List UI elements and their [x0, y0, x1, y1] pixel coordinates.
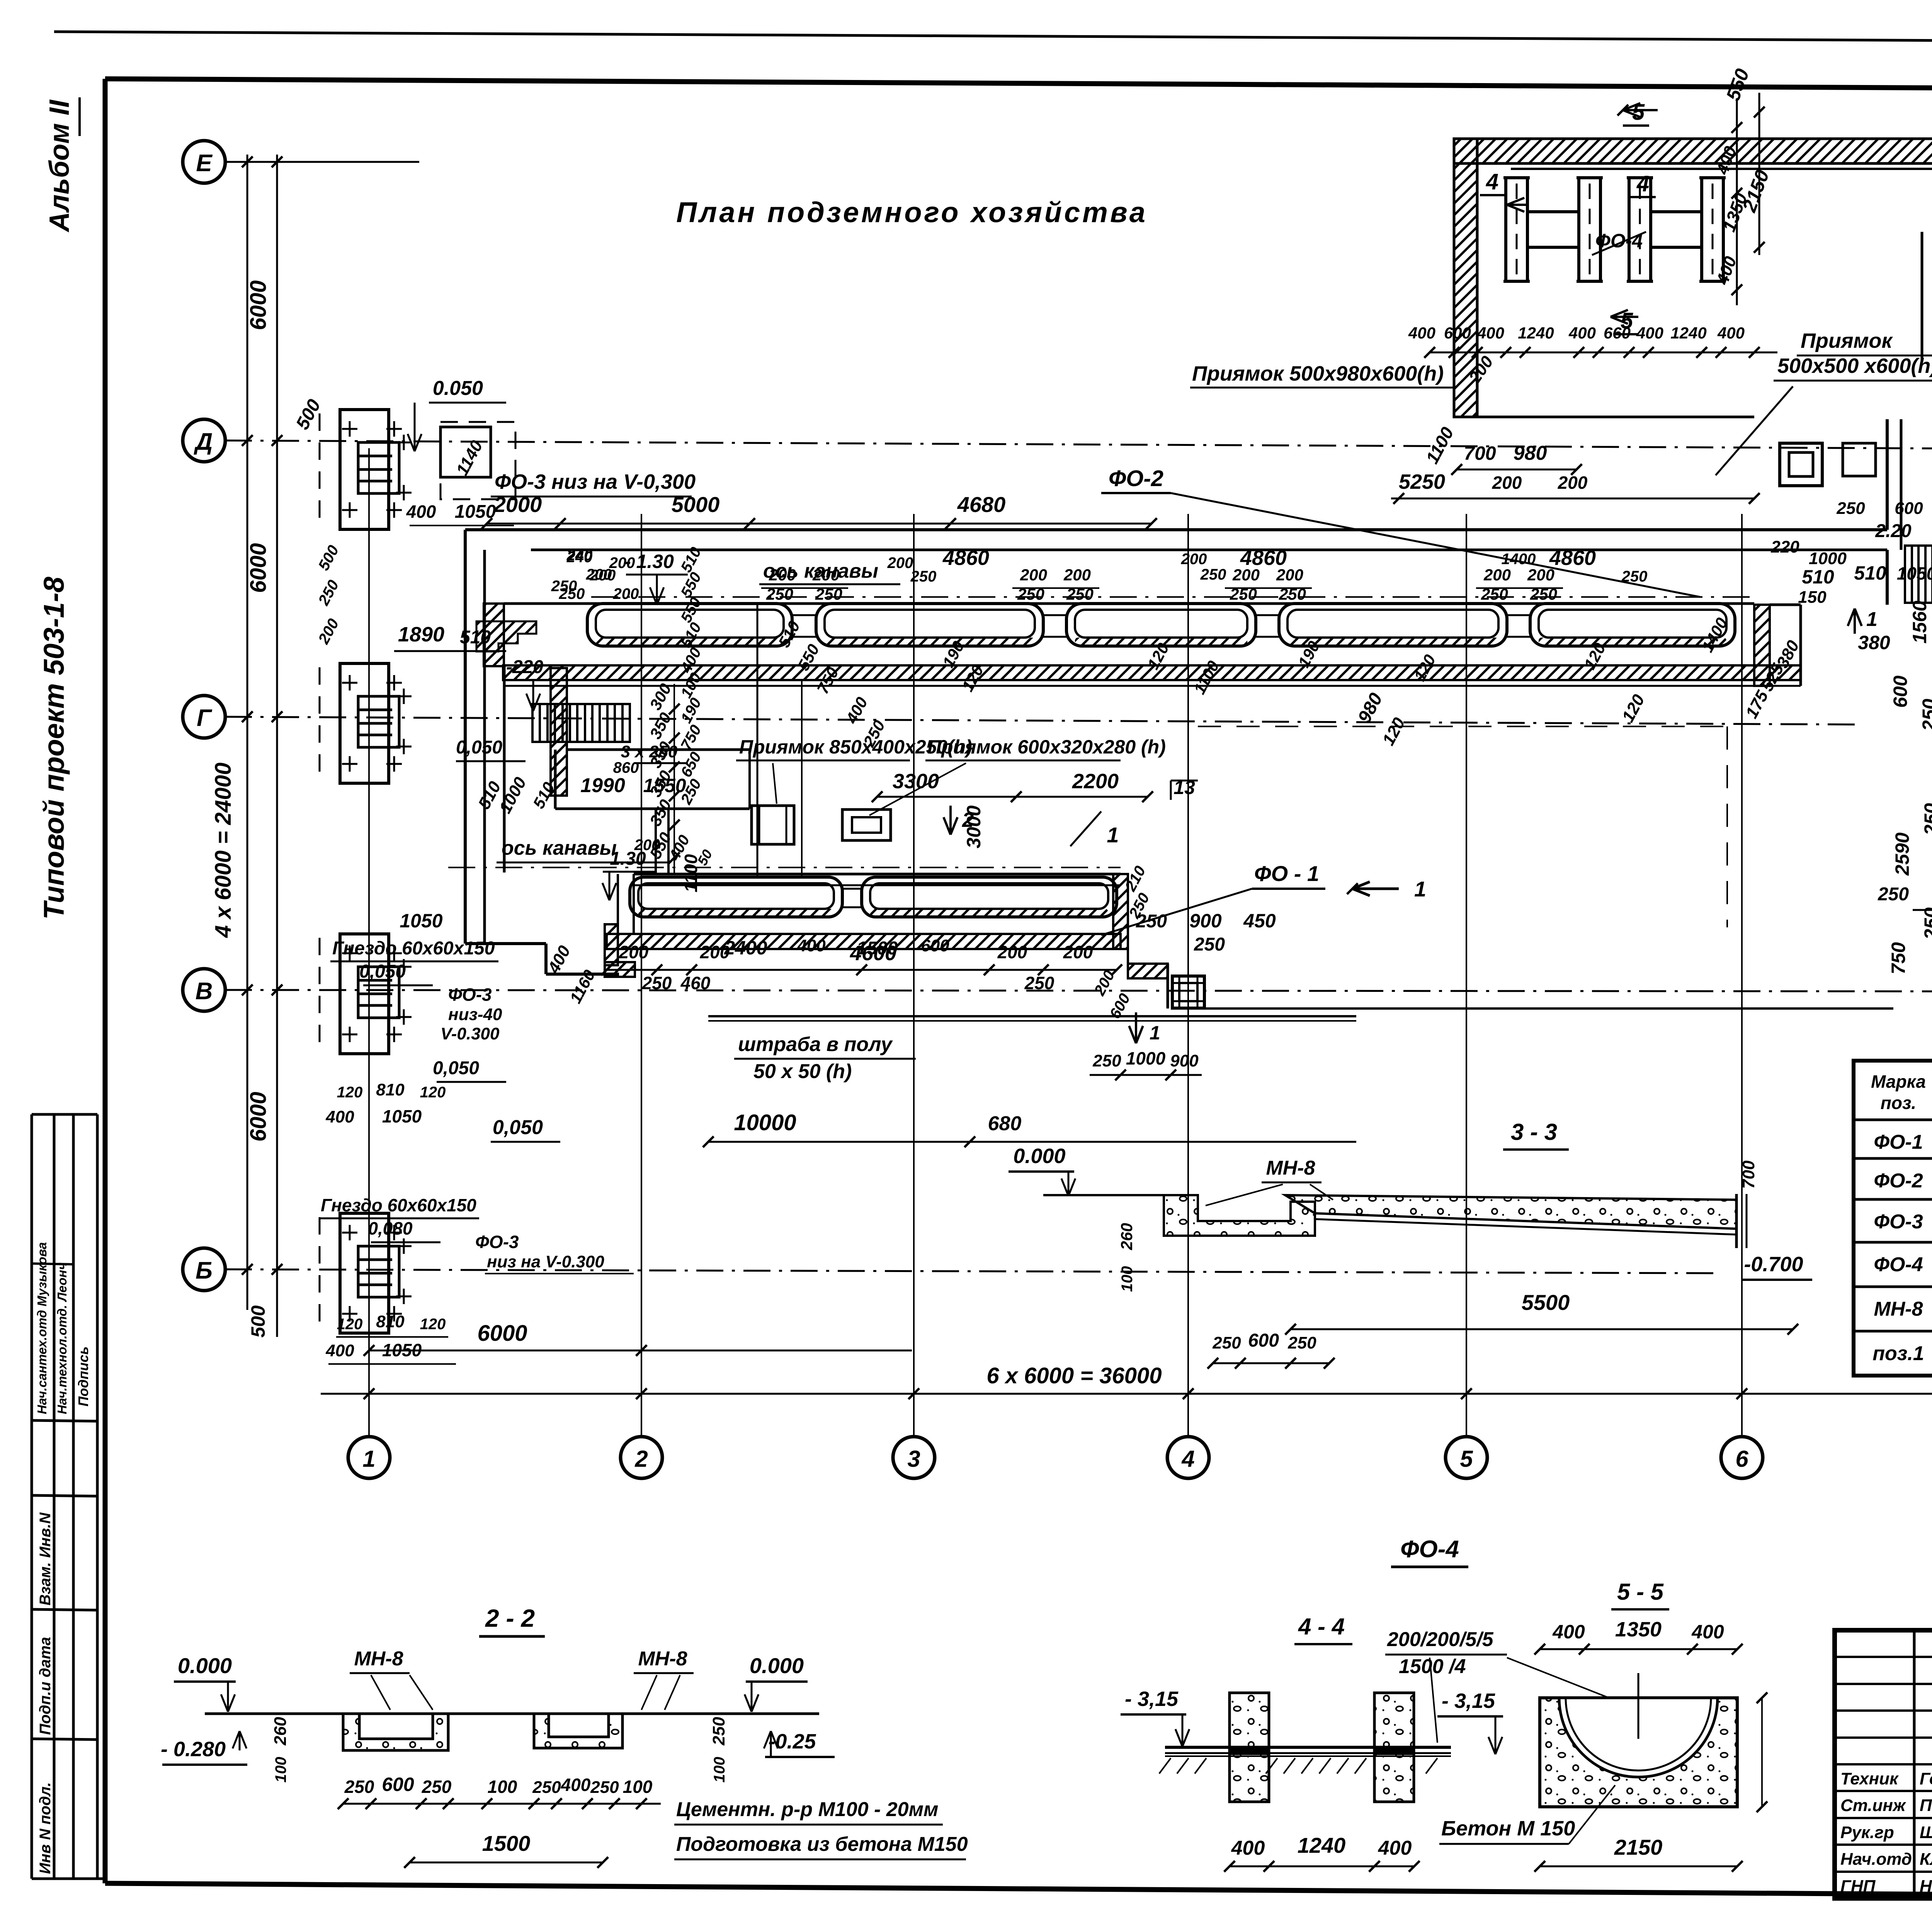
axis circle Е	[183, 141, 225, 183]
sheet frame left edge	[103, 79, 108, 1883]
left dim chain line 2	[276, 155, 278, 1337]
svg-text:1240: 1240	[1670, 324, 1706, 342]
svg-text:В: В	[196, 978, 213, 1005]
bottom right boundary step	[1167, 964, 1169, 1009]
svg-text:250: 250	[709, 1717, 728, 1746]
svg-text:200: 200	[1483, 566, 1511, 584]
svg-text:Типовой проект 503-1-8: Типовой проект 503-1-8	[38, 577, 70, 920]
svg-text:250: 250	[1287, 1333, 1316, 1352]
ФО-1 leader	[1101, 889, 1252, 935]
svg-text:0,050: 0,050	[359, 961, 406, 982]
bottom trench left end boundary	[617, 874, 619, 924]
plan interior vertical line B	[801, 680, 803, 877]
svg-text:6000: 6000	[246, 1092, 271, 1141]
svg-text:1050: 1050	[382, 1106, 422, 1126]
svg-text:600: 600	[1889, 675, 1911, 708]
spec table row line	[1854, 1241, 1932, 1244]
building top wall hatched	[1454, 139, 1932, 163]
svg-text:250: 250	[1194, 934, 1225, 955]
section mark 2 bottom-left	[1135, 1012, 1137, 1043]
svg-text:1050: 1050	[382, 1340, 422, 1360]
building inner left line	[1476, 163, 1478, 417]
svg-text:700: 700	[1739, 1160, 1758, 1189]
pit cluster axis В left	[340, 934, 389, 1054]
axis Е line	[225, 161, 419, 163]
svg-text:ФО-4: ФО-4	[1874, 1253, 1923, 1276]
shtraba line	[708, 1015, 1356, 1017]
title block left rows	[1835, 1656, 1932, 1658]
svg-text:1: 1	[1150, 1022, 1160, 1044]
svg-text:200: 200	[1063, 566, 1091, 584]
bottom trench slot 1 inner	[638, 883, 834, 909]
spec table row line	[1854, 1198, 1932, 1201]
svg-text:Полякова: Полякова	[1920, 1796, 1932, 1815]
svg-text:2.20: 2.20	[1875, 521, 1912, 541]
svg-text:ФО-2: ФО-2	[1874, 1170, 1923, 1192]
priamok pit on axis Д 2	[1843, 443, 1876, 476]
building dim row	[1430, 352, 1777, 354]
building pair B connector	[1651, 210, 1702, 213]
svg-text:поз.1: поз.1	[1872, 1342, 1924, 1365]
pit cluster axis Д wall side	[440, 427, 491, 477]
svg-text:500х500 х600(h): 500х500 х600(h)	[1777, 354, 1932, 378]
building right dim vline	[1736, 100, 1738, 305]
svg-text:200: 200	[997, 942, 1027, 962]
axis circle Г	[183, 696, 225, 738]
svg-text:ФО-2: ФО-2	[1109, 466, 1163, 491]
axis 6 vertical line	[1741, 514, 1743, 1437]
4-4 post left	[1230, 1693, 1269, 1802]
svg-text:Цементн. р-р М100 - 20мм: Цементн. р-р М100 - 20мм	[676, 1798, 939, 1821]
sheet outer top line	[54, 32, 1932, 44]
svg-text:Климов: Климов	[1920, 1850, 1932, 1869]
title block outer frame	[1835, 1630, 1932, 1898]
right room bottom boundary	[1171, 1007, 1893, 1010]
svg-text:ось канавы: ось канавы	[502, 837, 617, 859]
plan wall lines x1697 x1730	[655, 809, 657, 874]
svg-text:0.000: 0.000	[1013, 1145, 1065, 1168]
svg-text:6000: 6000	[477, 1321, 527, 1346]
svg-text:860: 860	[613, 759, 639, 776]
svg-text:- 3,15: - 3,15	[1442, 1689, 1495, 1713]
svg-text:260: 260	[271, 1717, 290, 1746]
svg-text:3: 3	[907, 1446, 920, 1472]
top trench slot 4 outer	[1279, 604, 1507, 646]
pit cluster axis Г left	[340, 663, 389, 783]
axis 3 vertical line	[913, 514, 915, 1437]
bottom trench slot 2 outer	[862, 877, 1117, 917]
3-3 slab bottom line	[1315, 1219, 1736, 1235]
priamok leader lines	[773, 763, 777, 804]
svg-text:Д: Д	[194, 429, 213, 455]
plan interior vertical line A	[757, 605, 759, 877]
top trench slot 3 hatch	[1075, 638, 1247, 646]
svg-text:2200: 2200	[1072, 770, 1119, 793]
svg-text:Подп.и дата: Подп.и дата	[37, 1637, 54, 1735]
5-5 center mark	[1638, 1673, 1639, 1739]
svg-text:Б: Б	[196, 1257, 213, 1284]
svg-text:120: 120	[420, 1316, 446, 1333]
top trench lower wall hatched strip	[503, 665, 1801, 680]
svg-text:Е: Е	[196, 150, 213, 177]
building bottom boundary	[1477, 416, 1754, 418]
left strip col line a	[53, 1114, 56, 1879]
svg-text:250: 250	[1200, 566, 1226, 583]
plan left boundary inner	[483, 550, 486, 944]
svg-text:5500: 5500	[1522, 1290, 1570, 1315]
dim 6000 between axes 1-2	[369, 1350, 912, 1352]
left strip outer edge	[31, 1114, 33, 1879]
svg-text:ФО-3: ФО-3	[475, 1232, 519, 1252]
section mark 1 diag	[1070, 811, 1101, 846]
svg-text:400: 400	[1636, 324, 1663, 342]
svg-text:1400: 1400	[1502, 551, 1536, 568]
svg-text:5000: 5000	[672, 492, 720, 517]
2-2 ground line	[205, 1713, 819, 1715]
svg-text:низ-40: низ-40	[448, 1005, 502, 1024]
svg-text:-0.700: -0.700	[1744, 1253, 1803, 1276]
svg-text:400: 400	[325, 1341, 354, 1360]
plan stairs upper-left steps	[476, 621, 536, 651]
left strip row line 4	[32, 1495, 97, 1496]
axis circle 3	[893, 1437, 935, 1478]
svg-text:2: 2	[962, 808, 974, 832]
axis 2 vertical line	[641, 514, 642, 1437]
svg-text:260: 260	[1117, 1223, 1136, 1250]
plan wall right of top trench	[1770, 604, 1801, 606]
staircase lower platform lines	[532, 741, 630, 743]
plan room 1990 outline top	[567, 748, 750, 751]
svg-text:810: 810	[376, 1080, 405, 1099]
right room inner dash rect	[1198, 726, 1727, 727]
svg-text:1050: 1050	[455, 502, 496, 522]
spec table row line	[1854, 1119, 1932, 1121]
left strip row line 6	[32, 1739, 97, 1740]
svg-text:- 3,15: - 3,15	[1125, 1687, 1179, 1711]
svg-text:4860: 4860	[1240, 546, 1287, 570]
spec table outer frame	[1854, 1061, 1932, 1376]
svg-text:4: 4	[1486, 169, 1498, 194]
svg-text:1050: 1050	[1897, 563, 1932, 583]
svg-text:450: 450	[1243, 910, 1276, 932]
svg-text:150: 150	[1798, 588, 1827, 607]
svg-text:5250: 5250	[1399, 470, 1445, 493]
svg-text:2150: 2150	[1614, 1835, 1663, 1859]
svg-text:600: 600	[382, 1774, 414, 1795]
sheet frame top edge (thick)	[105, 79, 1932, 92]
bottom trench top edge second line	[634, 884, 1121, 886]
right wall down from top trench	[1886, 550, 1889, 605]
svg-text:2 - 2: 2 - 2	[485, 1604, 535, 1632]
top trench slot 1 hatch	[596, 638, 784, 646]
svg-text:510: 510	[1854, 562, 1886, 584]
plan left boundary outer	[464, 530, 467, 944]
axis Б line	[225, 1269, 1719, 1273]
svg-text:400: 400	[1477, 324, 1504, 342]
svg-text:Приямок 500х980х600(h): Приямок 500х980х600(h)	[1192, 362, 1444, 385]
4-4 ground line	[1165, 1755, 1451, 1757]
svg-text:1240: 1240	[1298, 1833, 1346, 1857]
svg-text:50 х 50 (h): 50 х 50 (h)	[753, 1060, 852, 1083]
svg-text:100: 100	[488, 1777, 517, 1797]
building column bar 2	[1579, 178, 1600, 281]
svg-text:1500 /4: 1500 /4	[1399, 1655, 1466, 1678]
top trench left bend wall	[484, 604, 504, 666]
svg-text:1: 1	[362, 1446, 375, 1472]
bottom trench left end hatched wall horizontal	[605, 962, 635, 977]
svg-text:100: 100	[1119, 1266, 1136, 1292]
top trench slot 2 hatch	[825, 638, 1035, 646]
svg-text:2400: 2400	[724, 937, 767, 959]
svg-text:V-0.300: V-0.300	[440, 1024, 500, 1043]
svg-text:2: 2	[634, 1446, 648, 1472]
svg-text:Рук.гр: Рук.гр	[1840, 1823, 1894, 1842]
svg-text:400: 400	[1568, 324, 1596, 342]
svg-text:600: 600	[1248, 1330, 1279, 1351]
svg-text:3300: 3300	[893, 770, 939, 793]
top trench top edge	[504, 602, 1754, 605]
svg-text:6 х 6000 = 36000: 6 х 6000 = 36000	[986, 1363, 1162, 1388]
svg-text:200: 200	[1492, 473, 1522, 493]
svg-text:680: 680	[988, 1112, 1022, 1135]
svg-text:МН-8: МН-8	[638, 1648, 687, 1670]
svg-text:ФО-4: ФО-4	[1400, 1536, 1459, 1563]
svg-text:6000: 6000	[246, 543, 271, 593]
svg-text:250: 250	[1918, 699, 1932, 731]
4-4 rail double line	[1165, 1746, 1451, 1749]
svg-text:250: 250	[551, 578, 577, 595]
building left wall hatched	[1454, 139, 1477, 417]
os kanavy bottom axis dashdot	[448, 867, 1121, 868]
building pair A connector	[1527, 210, 1579, 213]
svg-text:200: 200	[769, 566, 796, 584]
svg-text:Приямок 600х320х280 (h): Приямок 600х320х280 (h)	[927, 736, 1166, 758]
svg-text:1500: 1500	[857, 938, 898, 959]
svg-text:Гнездо 60х60х150: Гнездо 60х60х150	[332, 938, 495, 959]
left strip row line 3	[32, 1420, 97, 1421]
svg-text:1000: 1000	[1809, 549, 1847, 568]
top trench right end wall	[1754, 605, 1770, 686]
svg-text:ФО-3 низ на V-0,300: ФО-3 низ на V-0,300	[495, 470, 696, 493]
svg-text:250: 250	[1836, 499, 1865, 518]
5-5 semicircle channel	[1559, 1698, 1718, 1777]
svg-text:1000: 1000	[1126, 1048, 1166, 1068]
svg-text:400: 400	[1378, 1837, 1412, 1859]
svg-text:ГНП: ГНП	[1840, 1877, 1876, 1896]
svg-text:400: 400	[797, 936, 826, 955]
svg-text:200: 200	[887, 554, 913, 571]
axis circle Б	[183, 1248, 225, 1291]
svg-text:120: 120	[337, 1084, 363, 1101]
left strip col line b	[72, 1114, 75, 1879]
svg-text:220: 220	[1770, 537, 1799, 556]
svg-text:600: 600	[1444, 324, 1471, 342]
bottom trench slot 1 outer	[630, 877, 842, 917]
axis circle В	[183, 969, 225, 1011]
svg-text:4 х 6000 = 24000: 4 х 6000 = 24000	[211, 762, 236, 938]
svg-text:5 - 5: 5 - 5	[1617, 1579, 1664, 1605]
svg-text:400: 400	[325, 1107, 354, 1126]
right stair block A	[1905, 546, 1932, 603]
sheet frame bottom edge	[105, 1883, 1932, 1899]
svg-text:460: 460	[680, 973, 711, 993]
svg-text:Ст.инж: Ст.инж	[1840, 1796, 1906, 1815]
left strip row line 1	[32, 1113, 97, 1116]
svg-text:4 - 4: 4 - 4	[1298, 1614, 1345, 1639]
bottom trench top edge left	[634, 873, 1121, 876]
stair side wall line	[1921, 232, 1923, 361]
plan room 1990 left wall	[554, 750, 557, 809]
svg-text:Шайхратова: Шайхратова	[1920, 1823, 1932, 1842]
svg-text:510: 510	[1802, 566, 1834, 588]
svg-text:2590: 2590	[1891, 832, 1913, 876]
svg-text:400: 400	[1691, 1621, 1724, 1643]
svg-text:3 - 3: 3 - 3	[1511, 1119, 1557, 1145]
svg-text:Голубева: Голубева	[1920, 1769, 1932, 1788]
svg-text:900: 900	[1170, 1051, 1199, 1070]
plan right vertical wall double	[1886, 419, 1889, 530]
svg-text:План подземного хозяйства: План подземного хозяйства	[676, 196, 1148, 228]
top trench slot 1 outer	[587, 604, 792, 646]
plan room 1990 right wall stub	[748, 750, 751, 809]
svg-text:200: 200	[609, 554, 635, 571]
bottom trench right wall	[1113, 874, 1128, 949]
axis circle 6	[1721, 1437, 1763, 1478]
axis 1 vertical line	[368, 448, 370, 1437]
spec table row line	[1854, 1286, 1932, 1288]
bottom trench slot 2 hatch	[870, 909, 1108, 917]
bottom trench slot gap connector	[842, 888, 862, 890]
svg-text:- 0.280: - 0.280	[161, 1738, 226, 1761]
svg-text:400: 400	[561, 1775, 591, 1795]
priamok pit rect 1	[752, 806, 794, 844]
left dim chain line 1	[247, 155, 248, 1310]
svg-text:660: 660	[1604, 324, 1631, 342]
axis circle 1	[348, 1437, 390, 1478]
left strip bottom line	[32, 1878, 105, 1880]
5-5 right dim vline	[1761, 1698, 1763, 1807]
svg-text:6: 6	[1735, 1446, 1748, 1472]
3-3 ground line	[1043, 1194, 1163, 1196]
axis Г line	[225, 717, 1855, 724]
svg-text:6000: 6000	[246, 280, 271, 330]
svg-text:200: 200	[1181, 551, 1207, 568]
3-3 long slab	[1285, 1195, 1736, 1229]
svg-text:4860: 4860	[1549, 546, 1596, 570]
svg-text:1890: 1890	[398, 623, 444, 646]
svg-text:Марка: Марка	[1871, 1071, 1926, 1092]
svg-text:120: 120	[420, 1084, 446, 1101]
4-4 post right	[1374, 1693, 1414, 1802]
svg-text:0.050: 0.050	[433, 377, 483, 400]
svg-text:Приямок: Приямок	[1801, 329, 1893, 352]
building bar caps	[1503, 176, 1530, 179]
svg-text:250: 250	[1878, 884, 1909, 905]
plan left inner wall hatched vertical	[551, 668, 567, 796]
axis circle 4	[1167, 1437, 1209, 1478]
svg-text:3 х 250: 3 х 250	[621, 742, 678, 761]
svg-text:2000: 2000	[493, 492, 542, 517]
svg-text:4: 4	[1181, 1446, 1194, 1472]
building top wall inner line	[1511, 168, 1932, 170]
svg-text:0.000: 0.000	[178, 1653, 232, 1678]
top trench slot 2 outer	[816, 604, 1043, 646]
spec table row line	[1854, 1330, 1932, 1333]
svg-text:0,080: 0,080	[368, 1218, 413, 1238]
top trench slot 4 inner	[1287, 610, 1498, 638]
2-2 channel right	[534, 1714, 622, 1748]
svg-text:400: 400	[1231, 1837, 1265, 1859]
top trench slot 3 outer	[1066, 604, 1256, 646]
priamok pit on axis Д 1	[1780, 443, 1822, 486]
svg-text:200: 200	[586, 566, 612, 583]
bottom right step wall hatched	[1128, 964, 1168, 978]
4-4 ground hatching	[1159, 1758, 1171, 1774]
top dim row 2000 5000 4680	[487, 523, 1151, 525]
svg-text:200: 200	[1558, 473, 1588, 493]
bottom trench slot 1 hatch	[638, 909, 834, 917]
2-2 channel left	[343, 1714, 448, 1750]
plan top boundary upper line	[465, 528, 1887, 531]
plan room 1990 outline bottom	[555, 808, 750, 810]
svg-text:1: 1	[1866, 608, 1878, 631]
svg-text:1240: 1240	[1518, 324, 1554, 342]
svg-text:400: 400	[1408, 324, 1435, 342]
3-3 left pit	[1164, 1195, 1315, 1236]
svg-text:100: 100	[711, 1757, 728, 1783]
axis circle 5	[1446, 1437, 1487, 1478]
svg-text:600: 600	[921, 936, 949, 955]
dim 10000 line	[708, 1141, 1356, 1143]
svg-text:Нач.технол.отд. Леонч: Нач.технол.отд. Леонч	[55, 1262, 69, 1414]
axis Д line	[225, 440, 1932, 449]
left strip row line 2	[32, 1264, 73, 1264]
svg-text:250: 250	[1092, 1051, 1121, 1070]
axis circle 2	[621, 1437, 662, 1478]
building column bar 4	[1702, 178, 1723, 281]
left strip col line c	[96, 1114, 99, 1879]
svg-text:200: 200	[1063, 942, 1093, 962]
svg-text:Инв N подл.: Инв N подл.	[37, 1782, 54, 1874]
svg-text:-220: -220	[506, 657, 543, 677]
svg-text:МН-8: МН-8	[1874, 1298, 1923, 1320]
svg-text:750: 750	[1888, 942, 1909, 975]
plan left step boundary	[465, 942, 546, 945]
svg-text:0,050: 0,050	[433, 1058, 479, 1078]
top trench lower wall second line	[503, 685, 1801, 687]
bottom trench slot 2 inner	[870, 883, 1108, 909]
top trench slot 2 inner	[825, 610, 1035, 638]
svg-text:4860: 4860	[942, 546, 989, 570]
svg-text:1050: 1050	[400, 910, 442, 932]
top trench slot gap connectors	[792, 614, 816, 616]
plan bottom-right pit square	[1172, 976, 1204, 1008]
svg-text:Никитин: Никитин	[1920, 1877, 1932, 1896]
os kanavy axis line top	[591, 596, 1754, 598]
svg-text:250: 250	[910, 568, 937, 585]
svg-text:200: 200	[1020, 566, 1047, 584]
svg-text:250: 250	[1621, 568, 1648, 585]
svg-text:100: 100	[272, 1757, 289, 1783]
svg-text:250: 250	[422, 1777, 452, 1797]
svg-text:Подготовка из бетона М150: Подготовка из бетона М150	[676, 1833, 968, 1855]
bottom trench left end hatched wall vertical	[605, 924, 618, 965]
svg-text:400: 400	[1552, 1621, 1585, 1643]
top trench slot 4 hatch	[1287, 638, 1498, 646]
svg-text:Подпись: Подпись	[75, 1346, 91, 1406]
svg-text:0,050: 0,050	[456, 737, 502, 758]
svg-text:штраба в полу: штраба в полу	[738, 1033, 893, 1056]
